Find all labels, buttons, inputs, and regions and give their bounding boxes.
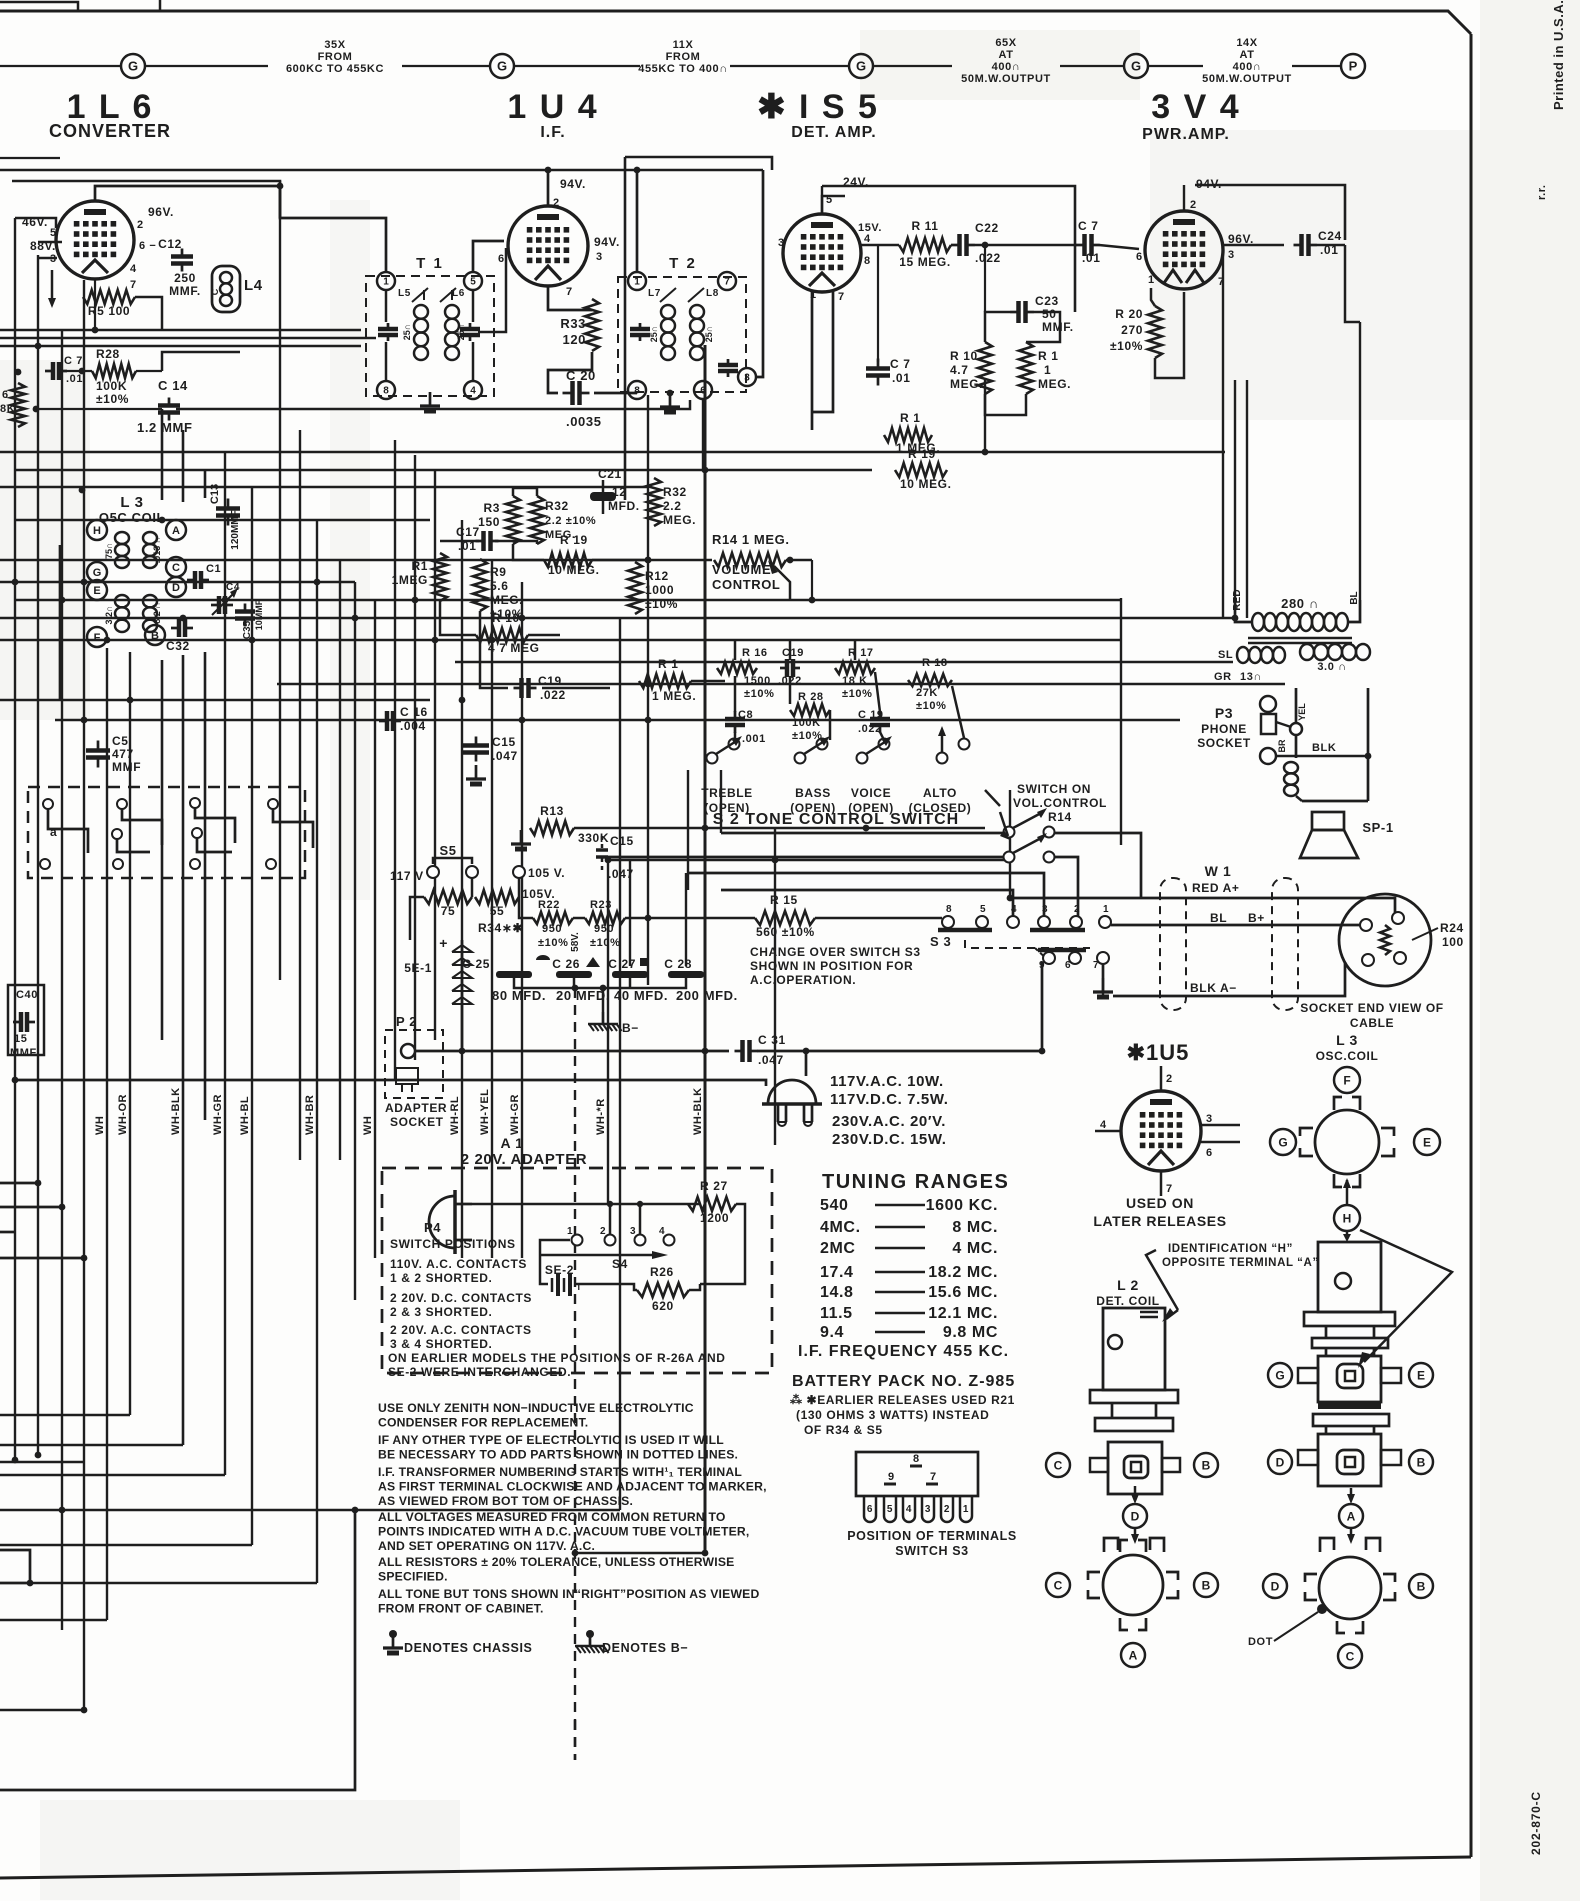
- node junction: [572, 1550, 579, 1557]
- svg-text:SOCKET: SOCKET: [390, 1115, 444, 1129]
- wire left stub y1207: [0, 1206, 62, 1209]
- wire nest h1510: [0, 1509, 620, 1511]
- svg-text:8 MC.: 8 MC.: [952, 1219, 998, 1236]
- capacitor C4 variable: [211, 604, 219, 607]
- wire tone chain v2: [880, 732, 884, 740]
- svg-text:2: 2: [553, 197, 560, 209]
- svg-text:±10%: ±10%: [744, 688, 774, 700]
- svg-text:D: D: [172, 582, 180, 594]
- node a1 j2: [607, 1201, 613, 1207]
- node junction: [33, 406, 40, 413]
- wire L2 D pin down: [1134, 1528, 1137, 1538]
- wire bus y700: [0, 699, 430, 701]
- capacitor C1: [187, 579, 195, 582]
- svg-text:WH-GR: WH-GR: [509, 1094, 521, 1135]
- wire trunk x705 heavy: [704, 345, 707, 1553]
- capacitor C8: [734, 711, 737, 719]
- switch vol contact 2: [1004, 852, 1015, 863]
- svg-text:4: 4: [1011, 904, 1017, 915]
- node junction: [645, 681, 652, 688]
- wire left stub y1232: [0, 1231, 15, 1234]
- svg-text:GR: GR: [1214, 671, 1232, 683]
- svg-text:3: 3: [1206, 1113, 1213, 1125]
- resistor R27: [688, 1197, 736, 1211]
- svg-text:MMF.: MMF.: [169, 284, 201, 298]
- svg-text:C 16: C 16: [400, 705, 428, 719]
- wire bus y452: [0, 451, 1225, 453]
- wire 1S5 pin5 up: [821, 186, 823, 214]
- wire bus y372 c7: [64, 370, 92, 372]
- resistor R10b: [978, 342, 992, 394]
- terminal L2 C: [1046, 1453, 1070, 1477]
- svg-text:R 1: R 1: [1038, 349, 1058, 363]
- svg-text:.022: .022: [540, 688, 566, 702]
- svg-text:±10%: ±10%: [1110, 339, 1143, 353]
- wire trunk x340: [339, 560, 341, 1160]
- svg-text:.047: .047: [492, 749, 518, 763]
- wire T1 pin8 up: [385, 342, 388, 381]
- wire r10 r1 bottom: [985, 394, 1026, 415]
- node junction: [222, 597, 229, 604]
- terminal T1 pin5: [464, 272, 482, 290]
- svg-text:BATTERY PACK NO. Z-985: BATTERY PACK NO. Z-985: [792, 1373, 1015, 1390]
- svg-text:E: E: [1417, 1368, 1425, 1382]
- svg-text:B: B: [1202, 1458, 1211, 1472]
- svg-text:C23: C23: [1035, 294, 1059, 308]
- wire trunk x62: [61, 330, 63, 1630]
- node switch contact: [190, 859, 200, 869]
- wire choke to bottom: [1296, 796, 1302, 801]
- node junction: [863, 825, 870, 832]
- svg-text:BASS: BASS: [795, 786, 831, 800]
- svg-text:27K: 27K: [916, 687, 938, 699]
- wire trunk x492: [491, 560, 493, 1258]
- wire bminus drop: [602, 988, 605, 1012]
- wire bus y338: [0, 337, 376, 339]
- wire T1 pin1 down: [385, 290, 388, 322]
- wire sec2 box right: [1367, 688, 1370, 801]
- coil choke near p3: [1284, 762, 1298, 773]
- node junction: [702, 825, 709, 832]
- svg-text:SWITCH S3: SWITCH S3: [895, 1544, 968, 1558]
- node G signal point: [490, 54, 514, 78]
- svg-text:9.8 MC: 9.8 MC: [943, 1324, 998, 1341]
- svg-text:T 2: T 2: [669, 255, 697, 272]
- resistor R13: [530, 821, 574, 835]
- svg-text:3: 3: [925, 1504, 931, 1515]
- svg-text:C5: C5: [112, 734, 129, 748]
- svg-text:C 7: C 7: [1078, 219, 1098, 233]
- wire band step 3: [195, 808, 235, 843]
- svg-text:C: C: [1346, 1649, 1355, 1663]
- wire tone top v: [854, 640, 857, 660]
- node blk junction: [1365, 753, 1372, 760]
- svg-text:7: 7: [930, 1471, 937, 1483]
- switch S3 bar b: [1030, 928, 1085, 933]
- svg-text:FROM FRONT OF CABINET.: FROM FRONT OF CABINET.: [378, 1602, 544, 1616]
- svg-text:.0035: .0035: [566, 414, 602, 429]
- wire c23 drop: [984, 245, 986, 312]
- svg-text:R33: R33: [560, 316, 586, 331]
- svg-text:IF ANY OTHER TYPE OF ELECTROLY: IF ANY OTHER TYPE OF ELECTROLYTIC IS USE…: [378, 1433, 724, 1447]
- node junction: [645, 557, 652, 564]
- svg-text:C 7: C 7: [64, 355, 83, 367]
- svg-text:I.F. FREQUENCY 455 KC.: I.F. FREQUENCY 455 KC.: [798, 1343, 1009, 1360]
- svg-text:.004: .004: [400, 719, 426, 733]
- wire trunk x620: [619, 618, 621, 1510]
- terminal L2w B: [1194, 1573, 1218, 1597]
- svg-text:F: F: [94, 632, 101, 644]
- terminal L3w C: [1338, 1644, 1362, 1668]
- wire r26 right: [689, 1284, 700, 1290]
- svg-text:25∩: 25∩: [649, 326, 659, 343]
- svg-text:AT: AT: [1239, 49, 1254, 61]
- node t2 feed junction: [634, 167, 641, 174]
- svg-text:6 −: 6 −: [139, 240, 156, 252]
- wire trunk x415: [414, 455, 416, 1060]
- svg-text:CONDENSER FOR REPLACEMENT.: CONDENSER FOR REPLACEMENT.: [378, 1416, 588, 1430]
- node switch contact: [117, 799, 127, 809]
- wire top stub y158: [0, 157, 60, 159]
- wire L3 box: [59, 545, 62, 700]
- wire s2-s3 y857: [602, 856, 1003, 859]
- wire 1u5 pin4: [1095, 1130, 1121, 1133]
- svg-text:C13: C13: [209, 484, 221, 504]
- wire sec2 box left top: [1295, 688, 1298, 758]
- svg-text:B−: B−: [622, 1021, 639, 1035]
- svg-text:.022: .022: [975, 251, 1001, 265]
- wire nest h1583: [30, 1582, 317, 1584]
- wire trunk x1121: [1120, 598, 1122, 845]
- wire c19a right: [542, 687, 610, 690]
- svg-text:T 1: T 1: [416, 255, 444, 272]
- node switch contact: [112, 829, 122, 839]
- svg-text:L 2: L 2: [1117, 1277, 1139, 1293]
- svg-text:C: C: [1054, 1458, 1063, 1472]
- svg-text:1: 1: [567, 1226, 573, 1237]
- socket pin d: [1394, 952, 1406, 964]
- svg-text:MMF: MMF: [112, 760, 141, 774]
- wire se2 to r26: [574, 1284, 637, 1290]
- svg-text:IDENTIFICATION “H”: IDENTIFICATION “H”: [1168, 1243, 1293, 1255]
- wire r19b right: [592, 559, 648, 562]
- electrolytic C26: [556, 971, 592, 978]
- wire tone chain b2: [829, 710, 832, 740]
- svg-text:R12: R12: [645, 569, 669, 583]
- svg-text:4.7: 4.7: [950, 363, 968, 377]
- svg-text:G: G: [1131, 59, 1141, 74]
- terminal L3w D: [1263, 1574, 1287, 1598]
- wire trunk x608: [607, 860, 609, 1204]
- svg-text:400∩: 400∩: [1233, 61, 1262, 73]
- wire nest x575 tail: [574, 1720, 577, 1760]
- svg-text:P 2: P 2: [396, 1014, 417, 1029]
- wire r24 leader: [1412, 928, 1438, 940]
- bracket L3 bottom: [1334, 1174, 1342, 1187]
- svg-text:200 MFD.: 200 MFD.: [676, 988, 738, 1003]
- svg-text:E: E: [93, 585, 100, 597]
- wire c26 drop: [573, 978, 576, 988]
- node junction: [127, 697, 134, 704]
- wire trunk x130: [129, 652, 131, 1415]
- transformer T3 primary: [1252, 613, 1264, 631]
- svg-text:105 V.: 105 V.: [528, 866, 565, 880]
- coil L3 can hole: [1335, 1273, 1351, 1289]
- svg-text:SL: SL: [1218, 649, 1233, 661]
- svg-text:G: G: [497, 59, 507, 74]
- switch S4 arm: [540, 1254, 660, 1257]
- coil L3 flange3: [1313, 1414, 1389, 1426]
- terminal L3s B right: [1409, 1450, 1433, 1474]
- wire tone top b: [789, 640, 792, 660]
- wire s2-s3 y873: [688, 873, 1044, 916]
- svg-text:3: 3: [1042, 904, 1048, 915]
- wire B+ rail y170: [0, 169, 763, 172]
- svg-text:230V.D.C. 15W.: 230V.D.C. 15W.: [832, 1131, 947, 1148]
- node nest j1: [59, 1507, 66, 1514]
- wire bus y346: [0, 345, 361, 347]
- svg-text:AND SET OPERATING ON 117V. A.C: AND SET OPERATING ON 117V. A.C.: [378, 1539, 595, 1553]
- wire c17 line: [440, 540, 479, 543]
- cable W1 dashed left: [1160, 878, 1186, 1010]
- resistor R9: [473, 559, 487, 611]
- wire bus y600: [15, 599, 1120, 601]
- svg-text:9.4: 9.4: [820, 1324, 844, 1341]
- node junction: [15, 369, 22, 376]
- svg-text:DENOTES CHASSIS: DENOTES CHASSIS: [404, 1641, 532, 1655]
- tube V5 1U5: [1121, 1091, 1201, 1171]
- svg-text:WH-GR: WH-GR: [212, 1094, 224, 1135]
- svg-text:r.r.: r.r.: [1536, 185, 1548, 200]
- bracket L2w right: [1166, 1572, 1178, 1580]
- ground T2: [669, 393, 672, 407]
- wire s2 drop x721: [720, 770, 722, 833]
- svg-text:1000: 1000: [645, 583, 674, 597]
- svg-text:230V.A.C. 20′V.: 230V.A.C. 20′V.: [832, 1113, 946, 1130]
- node a1 j3: [637, 1201, 643, 1207]
- wire c27 drop: [629, 978, 632, 988]
- svg-text:A: A: [172, 525, 180, 537]
- node junction: [12, 579, 19, 586]
- node junction: [352, 615, 359, 622]
- svg-text:±10%: ±10%: [96, 392, 129, 406]
- svg-text:L4: L4: [244, 277, 263, 294]
- wire long y1080: [15, 1080, 766, 1086]
- wire L3 neckA: [1325, 1326, 1328, 1338]
- wire box around 1U4-T2 top: [625, 157, 772, 170]
- node stub j2: [59, 1204, 66, 1211]
- svg-text:7: 7: [1093, 960, 1099, 971]
- svg-text:2: 2: [600, 1226, 606, 1237]
- socket pin a: [1360, 919, 1372, 931]
- resistor R32b: [647, 478, 661, 526]
- svg-text:.01: .01: [1082, 251, 1100, 265]
- svg-text:C32: C32: [166, 639, 190, 653]
- svg-text:4: 4: [906, 1504, 912, 1515]
- svg-text:BE NECESSARY TO ADD PARTS SH: BE NECESSARY TO ADD PARTS SHOWN IN DOTTE…: [378, 1448, 738, 1462]
- coil T1 primary: [414, 305, 428, 319]
- wire r15 left: [648, 917, 755, 920]
- transformer T3 sec1: [1237, 647, 1249, 663]
- svg-text:LATER RELEASES: LATER RELEASES: [1093, 1213, 1226, 1229]
- connector P2 inner: [396, 1068, 418, 1084]
- svg-text:C 25: C 25: [462, 957, 490, 971]
- wire trunk x395: [394, 440, 396, 1080]
- svg-text:R 15: R 15: [770, 893, 798, 907]
- wire ident leader right: [1360, 1230, 1452, 1362]
- wire jack link: [1276, 722, 1291, 727]
- wire 1u5 pin6: [1201, 1141, 1240, 1144]
- wire r22-r23: [573, 917, 585, 920]
- capacitor C14: [168, 398, 171, 406]
- svg-text:75: 75: [441, 904, 456, 918]
- node se1 junction: [459, 1048, 466, 1055]
- terminal H: [87, 520, 107, 540]
- svg-text:3: 3: [778, 237, 785, 249]
- wire left stub y1183: [0, 1182, 38, 1185]
- wire x878 down: [877, 245, 879, 362]
- svg-text:R 10: R 10: [492, 611, 520, 625]
- svg-text:ALTO: ALTO: [923, 786, 957, 800]
- wire band step 4: [273, 809, 313, 848]
- wire r3 top: [513, 488, 537, 496]
- wire c25-28 bus: [514, 978, 686, 988]
- resistor R12: [628, 562, 642, 614]
- node junction: [982, 449, 989, 456]
- coil L3b: [143, 532, 157, 544]
- bracket L3 right: [1381, 1128, 1394, 1136]
- svg-text:2: 2: [1074, 904, 1080, 915]
- svg-text:3: 3: [744, 373, 750, 384]
- svg-text:FROM: FROM: [666, 51, 701, 63]
- svg-text:1: 1: [383, 277, 389, 288]
- svg-text:105V.: 105V.: [522, 887, 555, 901]
- svg-text:6: 6: [1065, 960, 1071, 971]
- svg-text:1: 1: [1148, 274, 1155, 286]
- svg-text:15: 15: [14, 1033, 27, 1045]
- svg-text:C15: C15: [610, 834, 634, 848]
- svg-text:C: C: [210, 288, 220, 295]
- wire nest h1710: [0, 1709, 84, 1711]
- wire page bottom border: [0, 1857, 1471, 1878]
- node T2 gnd dot: [667, 390, 674, 397]
- battery SE-2: [561, 1272, 563, 1284]
- capacitor T1 left: [387, 323, 390, 329]
- node nest j6: [352, 1507, 359, 1514]
- wire r11 to c22: [951, 244, 952, 247]
- wire page right border: [1470, 34, 1473, 1857]
- svg-text:BLK A−: BLK A−: [1190, 981, 1237, 995]
- node switch contact: [43, 799, 53, 809]
- svg-text:BR: BR: [1277, 739, 1287, 752]
- svg-text:USE ONLY ZENITH NON−INDUCTIV: USE ONLY ZENITH NON−INDUCTIVE ELECTROLYT…: [378, 1401, 694, 1415]
- svg-text:±10%: ±10%: [590, 937, 620, 949]
- terminal T2 pin6: [694, 381, 712, 399]
- svg-text:6: 6: [1136, 251, 1143, 263]
- resistor R32a: [530, 496, 544, 544]
- svg-text:H: H: [1343, 1211, 1352, 1225]
- node junction: [12, 1077, 19, 1084]
- wire c24 to bl: [1345, 245, 1360, 322]
- svg-text:3.0 ∩: 3.0 ∩: [1317, 661, 1346, 673]
- wire bus y330: [0, 329, 361, 331]
- node junction: [459, 697, 466, 704]
- svg-text:R14 1 MEG.: R14 1 MEG.: [712, 532, 790, 547]
- node switch contact: [40, 859, 50, 869]
- svg-text:DENOTES B−: DENOTES B−: [602, 1641, 688, 1655]
- coil L2 can: [1103, 1308, 1165, 1390]
- svg-text:12.1 MC.: 12.1 MC.: [928, 1305, 998, 1322]
- wire T2 pin3 riser: [756, 170, 763, 377]
- wire r34 left: [410, 897, 424, 940]
- svg-text:600KC TO 455KC: 600KC TO 455KC: [286, 63, 384, 75]
- wire nest h1620: [0, 1619, 107, 1621]
- wire red lead up: [1234, 380, 1236, 600]
- svg-text:G: G: [93, 567, 102, 579]
- svg-text:7: 7: [130, 279, 137, 291]
- svg-text:SHOWN IN POSITION FOR: SHOWN IN POSITION FOR: [750, 959, 913, 973]
- svg-text:F: F: [1343, 1073, 1350, 1087]
- svg-text:R 10: R 10: [950, 349, 978, 363]
- svg-text:I.F. TRANSFORMER NUMBERING S: I.F. TRANSFORMER NUMBERING STARTS WITH¹₁…: [378, 1465, 742, 1479]
- resistor R18: [908, 674, 952, 686]
- wire nest bottom: [0, 1510, 355, 1790]
- wire L2 neck2: [1155, 1403, 1158, 1418]
- node r19 r14 j: [645, 557, 652, 564]
- svg-text:L5: L5: [398, 288, 411, 299]
- svg-text:PWR.AMP.: PWR.AMP.: [1142, 126, 1230, 143]
- svg-text:G: G: [1278, 1135, 1287, 1149]
- connector L3 pins bottom: [1320, 1538, 1334, 1552]
- wire sec2 box bottom: [1302, 800, 1368, 803]
- svg-text:OSC.COIL: OSC.COIL: [1316, 1049, 1379, 1063]
- wire 3V4 pin2 up: [1183, 185, 1185, 211]
- capacitor T2 right: [727, 359, 730, 365]
- node junction: [412, 597, 419, 604]
- capacitor C15 dashed: [601, 836, 604, 848]
- svg-text:G: G: [856, 59, 866, 74]
- svg-text:R34∗✱: R34∗✱: [478, 921, 523, 935]
- wire s5 down: [471, 878, 474, 897]
- wire left 46V lead: [15, 218, 56, 228]
- resistor R34 75: [424, 890, 472, 904]
- wire r14 wiper: [774, 566, 790, 600]
- svg-text:WH-RL: WH-RL: [449, 1096, 461, 1135]
- wire s2-s3 y890: [721, 890, 1013, 916]
- svg-text:B: B: [1417, 1579, 1426, 1593]
- node junction: [519, 615, 526, 622]
- svg-text:.047: .047: [608, 867, 634, 881]
- wire dashed box band switch: [28, 787, 305, 878]
- node junction: [159, 517, 166, 524]
- svg-text:C35: C35: [242, 620, 253, 639]
- svg-text:1: 1: [634, 277, 640, 288]
- terminal G: [87, 562, 107, 582]
- svg-text:18.2 MC.: 18.2 MC.: [928, 1264, 998, 1281]
- svg-text:SP-1: SP-1: [1362, 820, 1393, 835]
- svg-text:VOLUME: VOLUME: [712, 562, 771, 577]
- switch S3 lower contacts: [1043, 952, 1055, 964]
- svg-text:270: 270: [1121, 323, 1143, 337]
- wire L2 neck: [1111, 1403, 1114, 1418]
- wire c19a left: [480, 611, 508, 688]
- switch alto contact: [937, 753, 948, 764]
- wire a1 right side: [700, 1204, 745, 1284]
- resistor R33: [585, 299, 599, 351]
- svg-text:25∩: 25∩: [456, 324, 466, 341]
- svg-text:2 20V. ADAPTER: 2 20V. ADAPTER: [461, 1151, 588, 1168]
- svg-text:R9: R9: [490, 565, 507, 579]
